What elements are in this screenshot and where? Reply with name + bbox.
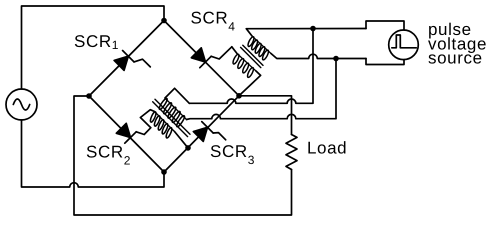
pulse transformer T4 core	[241, 45, 263, 67]
pulse transformer T4 primary winding	[247, 36, 271, 61]
wire: left node to load bottom	[74, 96, 292, 215]
junction dot bottom node	[161, 169, 167, 175]
pulse transformer T2 primary lead (line A peak)	[165, 88, 189, 103]
wire top: ac source to top node	[22, 6, 165, 89]
diagonal: SCR2 wire (left node to bottom node)	[89, 96, 164, 172]
ac source V1	[6, 89, 37, 120]
junction dot T2 secondary to SCR3 anode	[185, 145, 191, 151]
svg-text:SCR1: SCR1	[74, 32, 119, 52]
junction dot top node	[161, 18, 167, 24]
pulse transformer T2 secondary lead to node	[175, 132, 189, 148]
diagonal: SCR4 wire (top node to right node)	[164, 21, 239, 96]
svg-text:source: source	[428, 49, 483, 68]
pulse transformer T4 secondary lead to gate	[232, 47, 237, 54]
diagonal: SCR3 wire (bottom node to right node)	[164, 96, 239, 172]
svg-text:SCR3: SCR3	[210, 142, 255, 167]
pulse transformer T4 primary bottom lead wire with hop	[271, 54, 366, 59]
thyristor SCR2	[116, 110, 154, 144]
wire line A: T2 primary to pulse bus with hops	[189, 29, 313, 104]
wire bottom: ac source to bottom node with hop	[22, 120, 165, 187]
svg-text:Load: Load	[307, 139, 347, 158]
junction dot pulse bus bottom	[333, 56, 339, 62]
junction dot pulse bus top	[310, 26, 316, 32]
pulse transformer T2 primary winding	[158, 98, 186, 128]
thyristor SCR1	[114, 51, 150, 71]
svg-text:SCR2: SCR2	[86, 142, 131, 167]
pulse transformer T2 core	[153, 99, 190, 136]
svg-text:SCR4: SCR4	[191, 8, 236, 33]
pulse transformer T4 secondary lead to right node	[239, 71, 261, 96]
pulse voltage source bracket bottom	[366, 59, 404, 65]
wire: right node to load top	[239, 96, 292, 135]
pulse voltage source bracket top	[366, 21, 404, 30]
thyristor SCR3	[193, 122, 225, 142]
diagonal: SCR1 anode wire (top node to left node)	[89, 21, 164, 97]
junction dot right node	[236, 93, 242, 99]
thyristor SCR4	[191, 47, 231, 68]
pulse transformer T4 secondary winding	[232, 53, 256, 78]
pulse voltage source circle	[389, 30, 419, 60]
pulse transformer T4 primary top lead wire	[246, 29, 366, 37]
wire line B: T2 primary to pulse bus with hops	[187, 59, 337, 120]
junction dot left node	[86, 93, 92, 99]
pulse transformer T2 secondary winding	[149, 111, 174, 138]
resistor load	[286, 135, 297, 170]
